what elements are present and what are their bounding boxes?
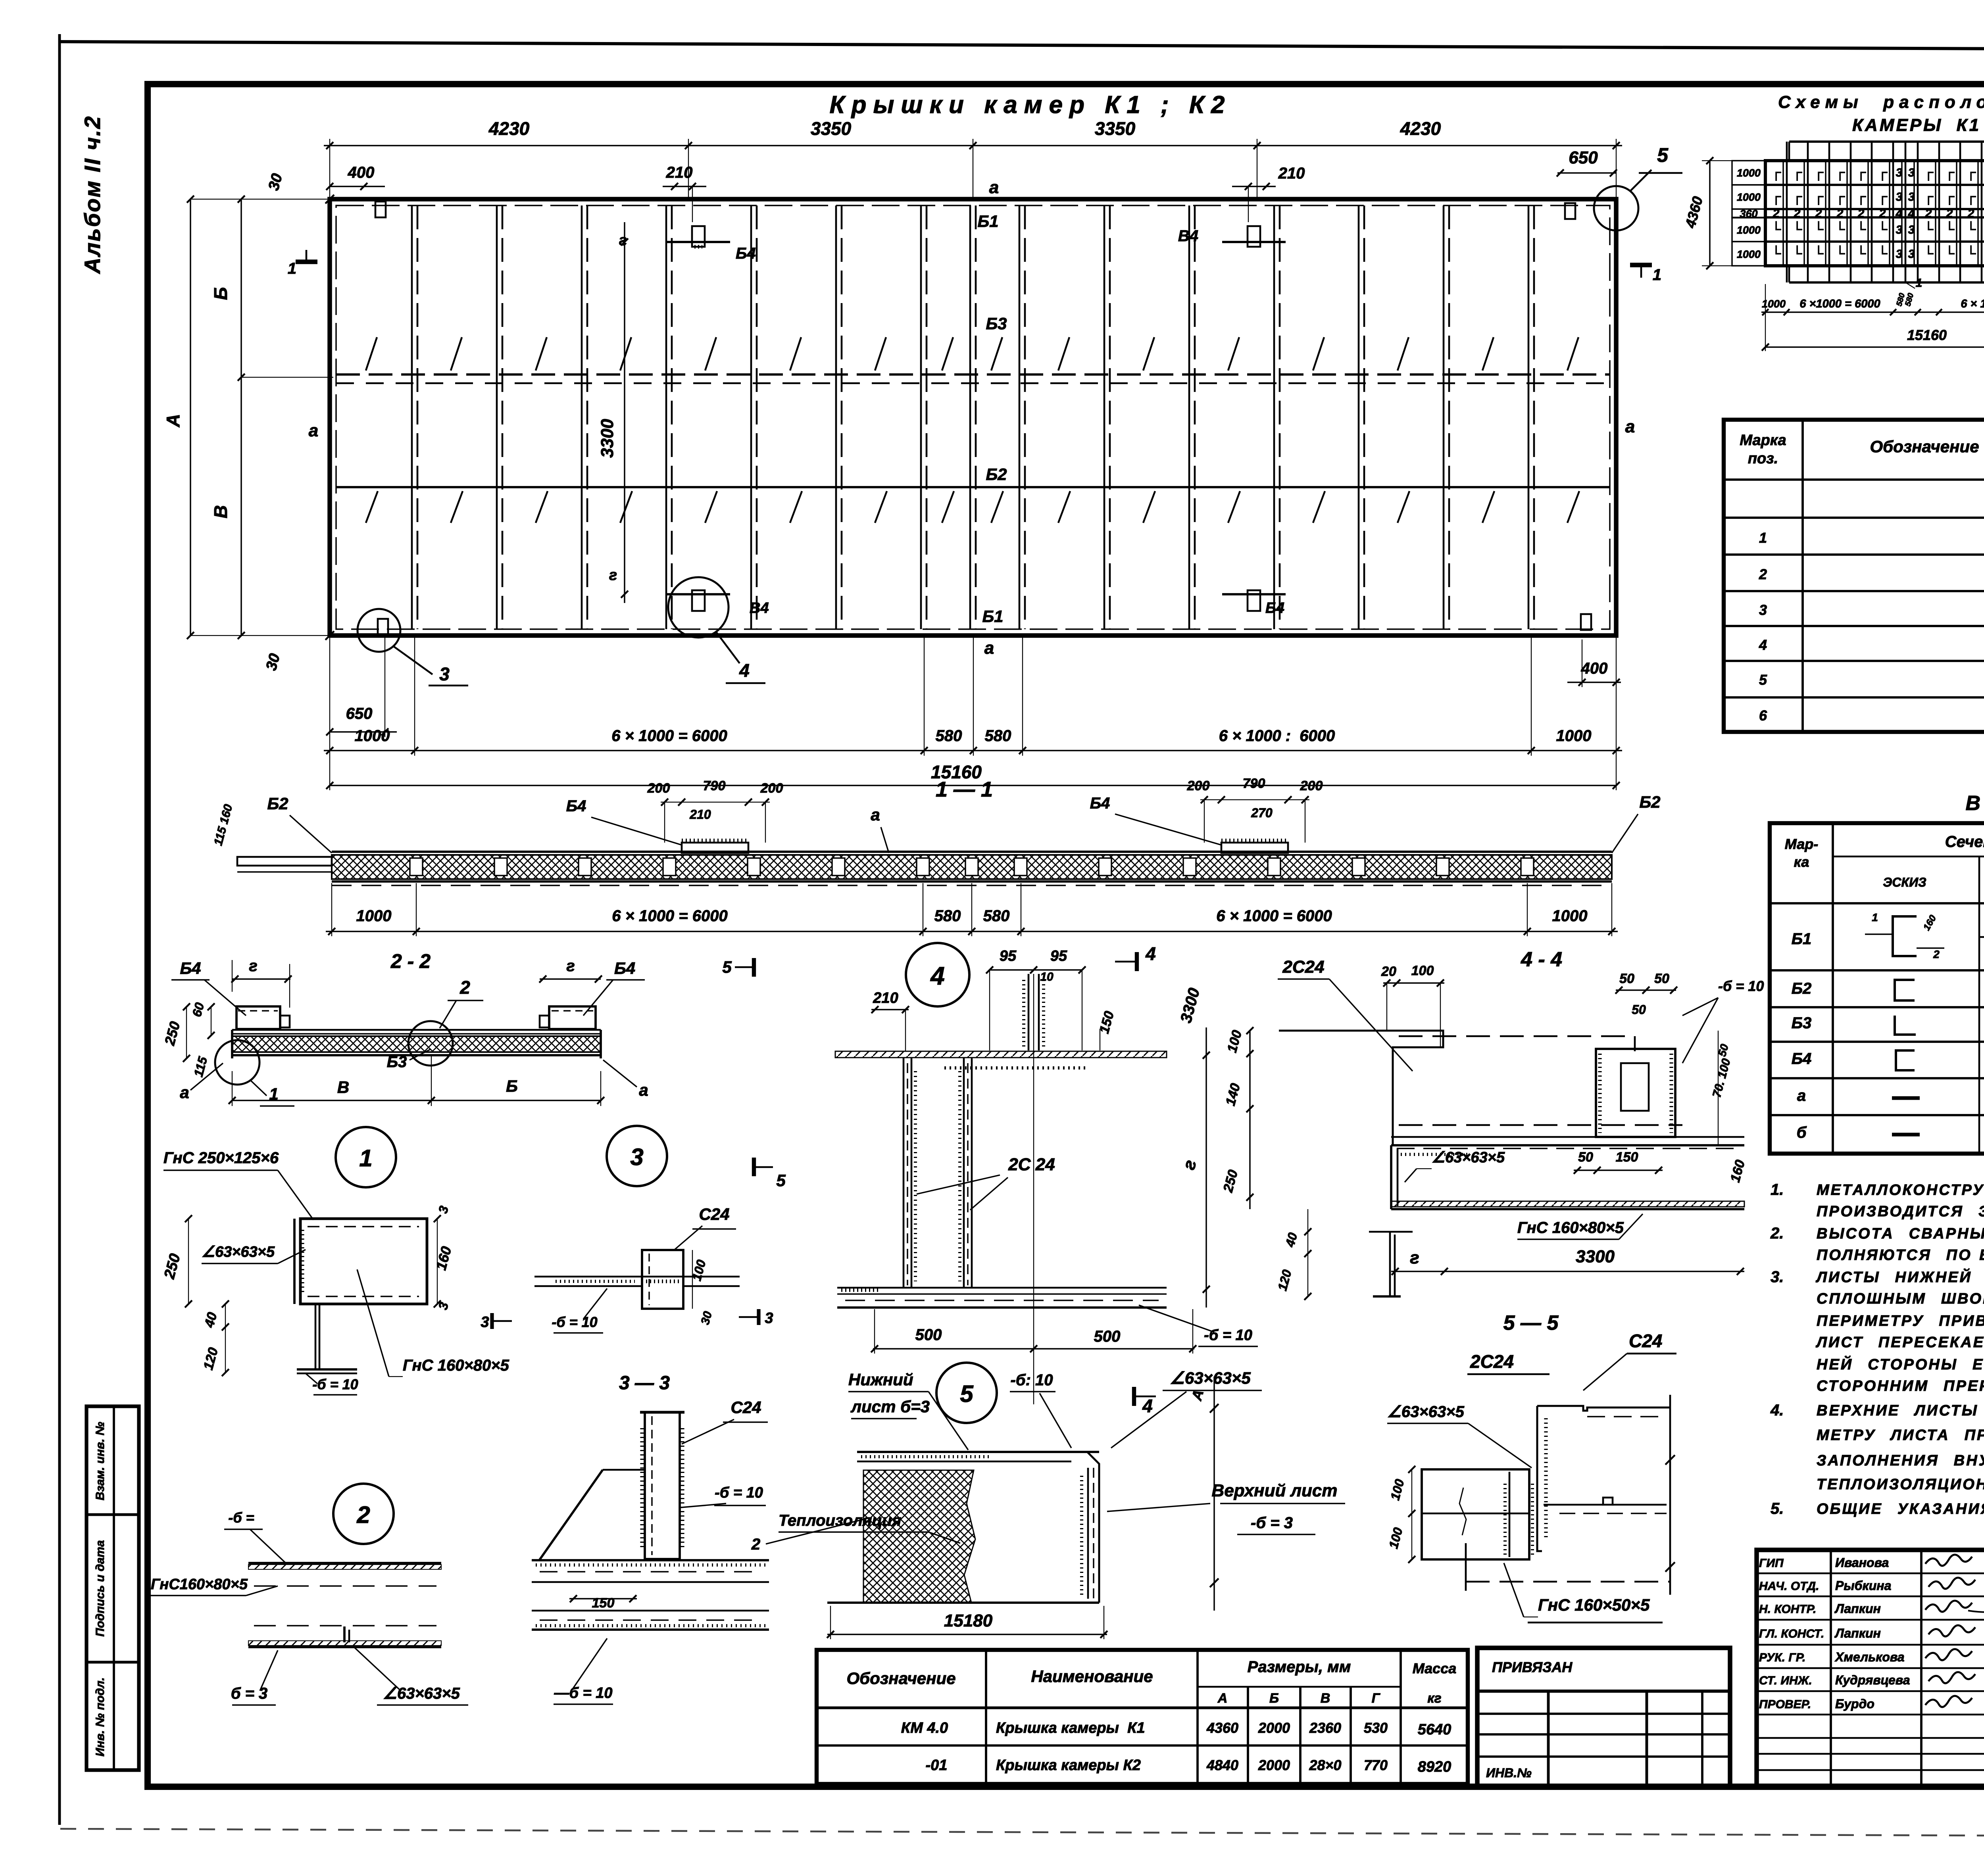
- plan detail circle 3 callout: [358, 609, 400, 652]
- svg-text:В: В: [1321, 1691, 1330, 1706]
- detail circle 3: [607, 1126, 667, 1186]
- detail 5 insulation block crosshatch: [863, 1470, 975, 1603]
- svg-text:МЕТАЛЛОКОНСТРУКЦИЯ КРЫШКИ ВЫ: МЕТАЛЛОКОНСТРУКЦИЯ КРЫШКИ ВЫПОЛНЯЕТСЯ СВ…: [1817, 1181, 1984, 1198]
- svg-text:2С24: 2С24: [1282, 957, 1324, 977]
- svg-text:210: 210: [666, 164, 693, 181]
- svg-text:┌: ┌: [1945, 189, 1955, 205]
- detail circle 4: [906, 943, 969, 1006]
- section 5-5 right vertical edge: [1669, 1395, 1671, 1595]
- svg-text:Бурдо: Бурдо: [1835, 1697, 1874, 1711]
- svg-text:Крышка камеры К1: Крышка камеры К1: [996, 1720, 1145, 1736]
- detail 4 section mark 4 top: [1135, 952, 1139, 971]
- svg-text:ЗАПОЛНЕНИЯ ВНУТРЕННЕГО ПРОСТ: ЗАПОЛНЕНИЯ ВНУТРЕННЕГО ПРОСТРАНСТВА КРЫШ…: [1817, 1452, 1984, 1469]
- svg-text:a: a: [871, 805, 880, 824]
- vedomost header lines: [1832, 823, 1834, 1154]
- scheme left dimension boxes: [1732, 161, 1765, 185]
- svg-text:8920: 8920: [1418, 1759, 1451, 1775]
- section 1-1 B4 assembly left: [682, 843, 748, 853]
- svg-text:1 — 1: 1 — 1: [936, 778, 993, 801]
- svg-text:3: 3: [1908, 166, 1915, 179]
- svg-text:6: 6: [1759, 707, 1767, 724]
- svg-text:└: └: [1878, 246, 1888, 261]
- section 4-4 top plate Z-step: [1279, 1031, 1443, 1145]
- svg-text:20: 20: [1381, 964, 1396, 979]
- svg-text:2: 2: [1946, 207, 1953, 220]
- svg-text:Верхний лист: Верхний лист: [1212, 1481, 1338, 1500]
- svg-text:4: 4: [930, 962, 945, 990]
- detail 4 center axis: [1033, 974, 1034, 1404]
- svg-text:Б4: Б4: [180, 959, 201, 977]
- svg-text:3: 3: [481, 1314, 489, 1331]
- svg-text:6 × 1000 = 6000: 6 × 1000 = 6000: [612, 907, 727, 925]
- svg-text:5: 5: [960, 1381, 974, 1407]
- plan longitudinal rib B2 (solid) with slashes: [336, 486, 1610, 488]
- svg-text:500: 500: [915, 1326, 942, 1344]
- scheme bottom row cells: [1788, 266, 1790, 282]
- svg-text:МЕТРУ ЛИСТА ПРЕРЫВИСТЫМ ШВО: МЕТРУ ЛИСТА ПРЕРЫВИСТЫМ ШВОМ , ПОСЛЕ ПОЛ…: [1817, 1427, 1984, 1444]
- svg-text:Б4: Б4: [566, 797, 586, 815]
- left stamp table: [87, 1406, 139, 1770]
- section 1-1 rib blocks: [410, 858, 423, 876]
- svg-text:4: 4: [739, 660, 750, 681]
- svg-text:г: г: [619, 232, 627, 249]
- svg-text:790: 790: [703, 778, 726, 793]
- svg-text:a: a: [984, 638, 994, 658]
- svg-text:200: 200: [760, 781, 783, 796]
- svg-text:└: └: [1792, 246, 1802, 261]
- svg-text:-б = 10: -б = 10: [715, 1484, 763, 1501]
- svg-text:поз.: поз.: [1748, 450, 1778, 467]
- svg-text:Б4: Б4: [1792, 1050, 1812, 1068]
- svg-text:кг: кг: [1427, 1691, 1441, 1706]
- svg-text:В4: В4: [1178, 227, 1198, 245]
- svg-text:└: └: [1814, 246, 1824, 261]
- svg-text:580: 580: [983, 907, 1010, 925]
- svg-text:4: 4: [1759, 637, 1767, 653]
- section 4-4 dims 50 150: [1574, 1169, 1663, 1171]
- svg-text:3: 3: [1896, 190, 1903, 204]
- svg-text:Б2: Б2: [1639, 793, 1660, 811]
- svg-text:└: └: [1835, 246, 1845, 261]
- section 2-2 bottom band: [232, 1054, 601, 1056]
- svg-text:└: └: [1814, 221, 1824, 237]
- svg-text:2: 2: [1836, 207, 1844, 220]
- svg-text:Б2: Б2: [1792, 980, 1812, 997]
- svg-text:Кудрявцева: Кудрявцева: [1835, 1673, 1910, 1687]
- svg-text:Г: Г: [1372, 1691, 1381, 1706]
- section 4-4 upper channel dashed: [1399, 1035, 1635, 1037]
- section 5-5 bottom dashed line: [1466, 1581, 1670, 1583]
- svg-text:-б = 10: -б = 10: [312, 1376, 358, 1392]
- svg-text:650: 650: [1569, 148, 1598, 167]
- svg-text:лист б=3: лист б=3: [850, 1397, 930, 1416]
- svg-text:∠63×63×5: ∠63×63×5: [1170, 1369, 1251, 1387]
- svg-text:┌: ┌: [1792, 189, 1802, 205]
- detail 4 stiffener above plate: [1028, 974, 1030, 1050]
- svg-text:—б = 10: —б = 10: [554, 1685, 612, 1701]
- section 1-1 B4 assembly right: [1221, 843, 1288, 853]
- svg-text:Нижний: Нижний: [848, 1370, 913, 1389]
- svg-text:5: 5: [722, 958, 732, 976]
- svg-text:150: 150: [592, 1596, 615, 1611]
- svg-text:КАМЕРЫ К1: КАМЕРЫ К1: [1852, 115, 1981, 135]
- detail 4 column flanges: [903, 1058, 905, 1288]
- svg-text:3: 3: [630, 1144, 643, 1170]
- svg-text:3 — 3: 3 — 3: [619, 1373, 670, 1394]
- svg-text:5 — 5: 5 — 5: [1503, 1311, 1559, 1335]
- svg-text:3: 3: [1896, 166, 1903, 179]
- detail 1 bottom angle plate: [315, 1304, 317, 1369]
- section 4-4 lower channel: [1397, 1148, 1738, 1149]
- scheme callout 1 mark: [1905, 282, 1915, 288]
- svg-text:└: └: [1771, 246, 1781, 261]
- detail 4 dims 500 500: [873, 1348, 1194, 1349]
- svg-text:3: 3: [1759, 602, 1767, 618]
- section 3-3 diagonal gusset: [539, 1470, 603, 1560]
- svg-text:СПЛОШНЫМ ШВОМ h= 3ММ С НАРУ: СПЛОШНЫМ ШВОМ h= 3ММ С НАРУЖНОЙ СТОРОНЫ …: [1817, 1289, 1984, 1307]
- svg-text:200: 200: [1300, 778, 1323, 793]
- svg-text:4230: 4230: [1400, 118, 1441, 139]
- plan internal dim 3300: [624, 222, 625, 603]
- svg-text:1: 1: [1916, 277, 1922, 290]
- svg-text:СТ. ИНЖ.: СТ. ИНЖ.: [1759, 1674, 1812, 1687]
- svg-text:КМ 4.0: КМ 4.0: [901, 1720, 948, 1736]
- svg-text:ПРОИЗВОДИТСЯ ЭЛЕКТРОДАМИ ТИП: ПРОИЗВОДИТСЯ ЭЛЕКТРОДАМИ ТИПА Э42 ГОСТ 9…: [1817, 1203, 1984, 1220]
- svg-text:3350: 3350: [811, 118, 852, 139]
- section 2-2 callout circle 1: [215, 1040, 260, 1085]
- section 3-3 C24 vertical member: [645, 1412, 680, 1559]
- plan corner anchor top-right: [1565, 203, 1575, 219]
- svg-text:Б4: Б4: [1090, 795, 1110, 812]
- plan transverse ribs: [411, 205, 413, 629]
- svg-text:5: 5: [776, 1171, 786, 1190]
- svg-text:Марка: Марка: [1740, 432, 1786, 449]
- svg-text:└: └: [1856, 246, 1866, 261]
- section 2-2 bottom dim line V B: [232, 1100, 601, 1101]
- sheet outer border left: [58, 34, 61, 1825]
- svg-text:┌: ┌: [1924, 189, 1934, 205]
- svg-text:С24: С24: [731, 1398, 761, 1417]
- title block left grid: [1830, 1550, 1832, 1787]
- svg-text:2С24: 2С24: [1470, 1351, 1514, 1372]
- detail 5 section line A: [1213, 1377, 1215, 1611]
- sheet outer border bottom (faint): [60, 1829, 1984, 1838]
- svg-text:Теплоизоляция: Теплоизоляция: [779, 1512, 901, 1529]
- svg-text:2: 2: [356, 1502, 370, 1528]
- svg-text:270: 270: [1251, 806, 1273, 820]
- svg-text:1000: 1000: [1552, 907, 1588, 925]
- svg-text:ГнС160×80×5: ГнС160×80×5: [151, 1576, 248, 1593]
- svg-text:2000: 2000: [1258, 1720, 1290, 1736]
- svg-text:└: └: [1856, 221, 1866, 237]
- svg-text:Ведомость элементов: Ведомость элементов: [1966, 792, 1984, 815]
- svg-text:ГИП: ГИП: [1759, 1557, 1784, 1570]
- detail 2 channel bottom flange: [248, 1641, 441, 1646]
- plan B4 connector bottom-right: [1222, 593, 1286, 595]
- detail circle 1: [336, 1127, 396, 1187]
- svg-text:┌: ┌: [1835, 189, 1845, 205]
- svg-text:В: В: [210, 505, 231, 518]
- svg-text:4: 4: [1896, 207, 1903, 220]
- svg-text:Лапкин: Лапкин: [1834, 1626, 1881, 1640]
- plan dim 210 left: [663, 186, 706, 187]
- section 5-5 inner bottom line with tab: [1544, 1504, 1603, 1506]
- svg-text:-01: -01: [926, 1757, 948, 1774]
- svg-text:50: 50: [1632, 1002, 1646, 1017]
- svg-text:2: 2: [1815, 207, 1822, 220]
- svg-text:50: 50: [1578, 1150, 1593, 1165]
- detail 5 folded corner: [1071, 1452, 1099, 1603]
- svg-text:-б = 10: -б = 10: [1204, 1327, 1252, 1344]
- detail 5 dim 15180: [827, 1634, 1107, 1635]
- svg-text:Б4: Б4: [736, 245, 756, 262]
- svg-text:г: г: [249, 957, 257, 975]
- plan corner anchor bottom-left: [378, 619, 388, 635]
- svg-text:a: a: [989, 178, 999, 197]
- svg-text:ЭСКИЗ: ЭСКИЗ: [1883, 875, 1926, 889]
- svg-text:400: 400: [1581, 660, 1608, 677]
- svg-text:∠63×63×5: ∠63×63×5: [1432, 1149, 1505, 1166]
- scheme total width dim: [1765, 346, 1984, 348]
- svg-text:3350: 3350: [1095, 118, 1136, 139]
- svg-text:Б1: Б1: [1792, 930, 1812, 948]
- svg-text:СТОРОННИМ ПРЕРЫВИСТЫМ ШВОМ: СТОРОННИМ ПРЕРЫВИСТЫМ ШВОМ: [1817, 1378, 1984, 1394]
- plan left dim line A: [190, 199, 191, 636]
- svg-text:ка: ка: [1794, 854, 1809, 870]
- plan dim 400: [330, 186, 385, 187]
- svg-text:2: 2: [1794, 207, 1801, 220]
- svg-text:└: └: [1966, 246, 1976, 261]
- svg-text:-б = 10: -б = 10: [1718, 978, 1764, 994]
- svg-text:1000: 1000: [1737, 224, 1761, 236]
- svg-text:Б1: Б1: [977, 212, 998, 230]
- svg-text:580: 580: [936, 727, 962, 745]
- svg-text:100: 100: [1411, 963, 1434, 978]
- svg-text:2: 2: [1773, 207, 1780, 220]
- detail circle 2: [333, 1484, 394, 1544]
- scheme main grid: [1765, 161, 1984, 266]
- svg-text:ГнС 160×80×5: ГнС 160×80×5: [1517, 1219, 1624, 1237]
- svg-text:Подпись и дата: Подпись и дата: [94, 1540, 107, 1636]
- svg-text:50: 50: [1654, 971, 1669, 986]
- section 1-1 bottom sheet line: [332, 880, 1612, 883]
- section 4-4 middle horizontal member: [1391, 1136, 1744, 1138]
- section 3-3 dim 150: [569, 1598, 637, 1599]
- svg-text:Б3: Б3: [387, 1053, 407, 1071]
- section 4-4 left dim chain: [1249, 1031, 1250, 1209]
- svg-text:15160: 15160: [1907, 327, 1947, 343]
- svg-text:Б2: Б2: [267, 794, 288, 813]
- section 1-1 dim 200 790 200 left: [661, 802, 770, 803]
- plan detail circle 5 callout: [1594, 186, 1638, 230]
- svg-text:Обозначение: Обозначение: [1870, 437, 1979, 456]
- svg-text:2: 2: [1967, 207, 1974, 220]
- svg-text:2: 2: [1879, 207, 1886, 220]
- svg-text:В: В: [337, 1078, 349, 1096]
- svg-text:1: 1: [1759, 530, 1767, 546]
- svg-text:Б4: Б4: [1265, 600, 1284, 616]
- svg-text:5.: 5.: [1771, 1500, 1784, 1517]
- svg-text:Сечение: Сечение: [1945, 833, 1984, 851]
- section 3-3 beam top: [532, 1559, 769, 1561]
- svg-text:2: 2: [1925, 207, 1932, 220]
- svg-text:400: 400: [348, 164, 375, 181]
- svg-text:3: 3: [439, 664, 450, 684]
- svg-text:Н. КОНТР.: Н. КОНТР.: [1759, 1603, 1816, 1616]
- svg-text:1000: 1000: [1737, 248, 1761, 260]
- svg-text:210: 210: [873, 990, 898, 1006]
- plan section mark 1 right: [1630, 263, 1652, 267]
- svg-text:5640: 5640: [1418, 1721, 1451, 1738]
- section 5-5 left beam: [1422, 1469, 1529, 1559]
- svg-text:ГнС 160×50×5: ГнС 160×50×5: [1538, 1596, 1650, 1614]
- plan bottom dim 650: [330, 731, 397, 732]
- svg-text:└: └: [1945, 246, 1955, 261]
- svg-text:5: 5: [1657, 144, 1669, 166]
- svg-text:Иванова: Иванова: [1835, 1555, 1889, 1570]
- svg-text:580: 580: [985, 727, 1011, 745]
- detail 2 channel top flange: [248, 1562, 441, 1564]
- svg-text:4360: 4360: [1206, 1720, 1238, 1736]
- svg-text:┌: ┌: [1814, 165, 1824, 181]
- svg-text:Взам. инв. №: Взам. инв. №: [94, 1422, 107, 1500]
- svg-text:∠63×63×5: ∠63×63×5: [1387, 1403, 1465, 1421]
- svg-text:г: г: [1410, 1248, 1419, 1267]
- svg-text:28×0: 28×0: [1309, 1757, 1341, 1773]
- section 5-5 channel C24 top: [1537, 1406, 1542, 1551]
- svg-text:ПОЛНЯЮТСЯ ПО ВСЕЙ ДЛИНЕ ПРИ: ПОЛНЯЮТСЯ ПО ВСЕЙ ДЛИНЕ ПРИМЫКАНИЯ ЭЛЕМЕ…: [1817, 1246, 1984, 1263]
- section 2-2 B4 box right: [549, 1006, 596, 1029]
- svg-text:Рыбкина: Рыбкина: [1835, 1578, 1891, 1593]
- detail 4 right dim 3300 and g: [1205, 1027, 1207, 1308]
- svg-text:ТЕПЛОИЗОЛЯЦИОННЫМ МАТЕРИАЛОМ: ТЕПЛОИЗОЛЯЦИОННЫМ МАТЕРИАЛОМ: [1817, 1476, 1984, 1493]
- detail 2 channel web dashed: [254, 1585, 436, 1586]
- svg-text:ВЕРХНИЕ ЛИСТЫ ПРИВАРИВАЮТСЯ: ВЕРХНИЕ ЛИСТЫ ПРИВАРИВАЮТСЯ К КАРКАСУ ПО…: [1817, 1402, 1984, 1419]
- svg-text:Крышка камеры К2: Крышка камеры К2: [996, 1757, 1141, 1774]
- svg-text:ГнС 250×125×6: ГнС 250×125×6: [163, 1149, 279, 1167]
- detail 2 mid stub: [343, 1626, 346, 1642]
- section mark 5 lower near detail 4: [752, 1158, 756, 1176]
- svg-text:6 × 1000 : 6000: 6 × 1000 : 6000: [1219, 727, 1335, 745]
- section 2-2 insulation strip: [232, 1036, 601, 1052]
- svg-text:ГнС 160×80×5: ГнС 160×80×5: [403, 1357, 509, 1374]
- svg-text:-б: 10: -б: 10: [1010, 1371, 1053, 1389]
- section 4-4 bottom dim g 3300: [1391, 1271, 1744, 1272]
- svg-text:Б: Б: [1269, 1691, 1279, 1706]
- plan dim 210 right: [1232, 186, 1276, 187]
- svg-text:└: └: [1966, 221, 1976, 237]
- svg-text:└: └: [1792, 221, 1802, 237]
- svg-text:└: └: [1878, 221, 1888, 237]
- svg-text:Альбом II ч.2: Альбом II ч.2: [80, 115, 105, 274]
- section 1-1 bottom dimension chain: [326, 931, 1618, 932]
- detail 1 channel body: [300, 1219, 427, 1304]
- section 2-2 B4 box left: [236, 1006, 280, 1029]
- svg-text:┌: ┌: [1966, 165, 1976, 181]
- plan total dim 15160: [330, 785, 1616, 786]
- svg-text:ОБЩИЕ УКАЗАНИЯ СМ. ЛИСТ 3.: ОБЩИЕ УКАЗАНИЯ СМ. ЛИСТ 3.: [1817, 1501, 1984, 1517]
- detail 3 base plate lines: [534, 1276, 740, 1278]
- svg-text:ЛИСТЫ НИЖНЕЙ ОБШИВКИ ПРИВАР: ЛИСТЫ НИЖНЕЙ ОБШИВКИ ПРИВАРИВАЮТСЯ К КАР…: [1815, 1268, 1984, 1286]
- section 1-1 left channel B2 protrusion: [237, 857, 332, 866]
- svg-text:┌: ┌: [1945, 165, 1955, 181]
- section 5-5 left dims 100 100: [1411, 1469, 1412, 1559]
- svg-text:2: 2: [1857, 207, 1865, 220]
- svg-text:Б: Б: [210, 287, 231, 300]
- svg-text:∠63×63×5: ∠63×63×5: [383, 1685, 460, 1702]
- svg-text:200: 200: [647, 781, 670, 796]
- svg-text:1: 1: [359, 1145, 372, 1171]
- section mark 5 upper near detail 4: [752, 958, 756, 977]
- svg-text:-б = 3: -б = 3: [1251, 1514, 1293, 1532]
- svg-text:└: └: [1945, 221, 1955, 237]
- svg-text:Инв. № подл.: Инв. № подл.: [94, 1677, 107, 1756]
- svg-text:6 × 1000 = 6000: 6 × 1000 = 6000: [611, 727, 727, 745]
- section 2-2 callout 2 with circle: [408, 1021, 453, 1066]
- title block signatures: [1925, 1555, 1972, 1566]
- svg-text:Лапкин: Лапкин: [1834, 1601, 1881, 1616]
- svg-text:┌: ┌: [1856, 165, 1866, 181]
- svg-text:Б3: Б3: [986, 314, 1007, 333]
- svg-text:1000: 1000: [1737, 191, 1761, 203]
- svg-text:б: б: [1797, 1124, 1807, 1141]
- svg-text:Б1: Б1: [982, 607, 1003, 626]
- svg-text:650: 650: [346, 705, 373, 722]
- svg-text:15180: 15180: [944, 1611, 993, 1630]
- svg-text:2000: 2000: [1258, 1757, 1290, 1773]
- plan bottom dimension chain: [324, 750, 1622, 751]
- svg-text:500: 500: [1094, 1328, 1121, 1345]
- plan B4 connector bottom-left: [667, 593, 730, 595]
- svg-text:∠63×63×5: ∠63×63×5: [202, 1244, 275, 1260]
- plan bottom dim 400 right: [1567, 682, 1621, 683]
- svg-text:580: 580: [934, 907, 961, 925]
- svg-text:Хмелькова: Хмелькова: [1834, 1650, 1905, 1664]
- svg-text:3: 3: [1908, 190, 1915, 204]
- svg-text:┌: ┌: [1924, 165, 1934, 181]
- section 1-1 dim 200 790 200 right: [1200, 799, 1309, 800]
- svg-text:150: 150: [1616, 1150, 1638, 1165]
- svg-text:ИНВ.№: ИНВ.№: [1486, 1766, 1532, 1780]
- svg-text:ПРОВЕР.: ПРОВЕР.: [1759, 1698, 1811, 1711]
- svg-text:4.: 4.: [1770, 1402, 1784, 1419]
- svg-text:Б: Б: [506, 1077, 518, 1095]
- plan corner anchor top-left: [375, 202, 386, 217]
- detail 4 section mark 4 bottom: [1132, 1387, 1136, 1406]
- svg-text:4 - 4: 4 - 4: [1521, 948, 1562, 971]
- svg-text:5: 5: [1759, 672, 1767, 688]
- svg-text:530: 530: [1364, 1720, 1388, 1736]
- svg-text:г: г: [609, 567, 617, 584]
- svg-text:Б4: Б4: [614, 959, 635, 977]
- svg-text:1: 1: [288, 260, 296, 277]
- svg-text:Размеры, мм: Размеры, мм: [1248, 1658, 1351, 1676]
- svg-text:4: 4: [1145, 943, 1156, 964]
- svg-text:6 × 1000 = 6000: 6 × 1000 = 6000: [1216, 907, 1332, 925]
- detail 3 section marks 3: [490, 1313, 494, 1329]
- svg-text:2360: 2360: [1309, 1720, 1341, 1736]
- svg-text:10: 10: [1040, 970, 1054, 983]
- svg-text:-б =: -б =: [228, 1509, 254, 1526]
- section 3-3 beam bottom: [532, 1610, 769, 1612]
- svg-text:ПЕРИМЕТРУ ПРИВАРИВАЕМОГО ЛИС: ПЕРИМЕТРУ ПРИВАРИВАЕМОГО ЛИСТА. ЕСЛИ ПРИ…: [1817, 1311, 1984, 1329]
- svg-text:а: а: [1797, 1087, 1806, 1104]
- svg-text:4: 4: [1142, 1396, 1153, 1416]
- detail 5 bottom line: [827, 1601, 1099, 1604]
- plan inner border: [336, 205, 1610, 629]
- plan detail circle 4 callout: [668, 577, 729, 637]
- scheme total height dim: [1709, 161, 1710, 266]
